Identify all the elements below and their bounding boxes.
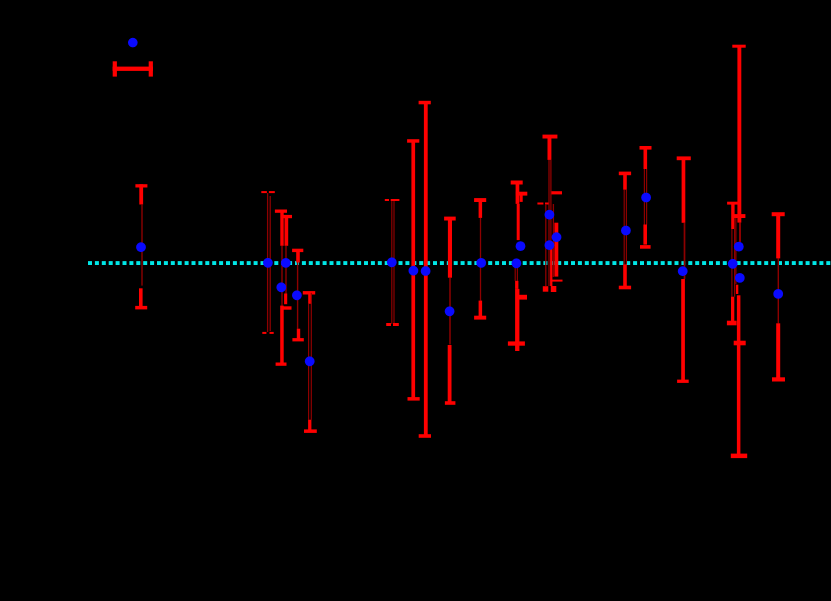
bar D2 thin line xyxy=(515,265,516,281)
bar C4 thin line xyxy=(449,278,451,345)
bar F1 tall thick stem xyxy=(737,46,741,222)
bar B1 bottom dashed cap xyxy=(262,332,273,334)
bar C4 top thick xyxy=(448,219,452,278)
point B5 xyxy=(305,356,315,366)
point B1 xyxy=(263,258,273,268)
bar F3 thin line xyxy=(734,218,735,297)
bar E1 bottom thick xyxy=(623,264,627,287)
bar F6 bottom cap xyxy=(731,454,747,459)
point C4 xyxy=(445,306,455,316)
bar D1 bottom cap xyxy=(474,316,486,320)
bar B2 top cap xyxy=(282,215,292,218)
point G xyxy=(773,289,783,299)
bar E1 top cap xyxy=(619,172,631,176)
bar B5 bottom cap xyxy=(304,429,317,433)
bar D1 bottom thick xyxy=(479,301,483,318)
legend marker dot xyxy=(128,38,138,48)
bar B2 bottom thick xyxy=(284,294,287,305)
point D3a xyxy=(545,210,555,220)
bar B5 top cap xyxy=(303,291,315,294)
legend errorbar sample xyxy=(113,61,154,76)
bar D3 thin line xyxy=(548,160,549,286)
bar D3 top cap xyxy=(543,135,558,139)
bar B2 bottom cap xyxy=(282,306,291,309)
bar D2 top cap xyxy=(511,181,523,185)
bar G thin line xyxy=(778,258,779,323)
bar B4 bottom thick xyxy=(297,329,300,340)
bar F1 top cap xyxy=(732,45,745,48)
bar G bottom thick xyxy=(776,323,780,379)
bar B3 thin line xyxy=(281,246,282,306)
bar D2 bottom thick xyxy=(515,289,519,351)
bar D2 lower stem xyxy=(515,281,518,289)
bar F2 bottom cap xyxy=(727,321,737,326)
point C1 xyxy=(387,257,397,267)
point F1 xyxy=(734,242,744,252)
bar B5 top thick xyxy=(308,293,312,304)
bar D4 thick stem xyxy=(554,223,558,277)
point B4 xyxy=(292,290,302,300)
bar G top cap xyxy=(772,212,785,216)
bar D2 right nub cap xyxy=(518,295,528,300)
bar C2 thick stem xyxy=(411,141,415,399)
bar F2 top cap xyxy=(727,202,738,205)
bar D3 medium seg xyxy=(550,246,552,286)
bar D2 second stem xyxy=(520,194,523,202)
bar D3 dashed cap xyxy=(537,203,548,205)
bar E1 thin line xyxy=(624,190,625,265)
bar D4 top cap xyxy=(552,191,563,194)
bar C4 top cap xyxy=(444,217,456,221)
bar B4 top cap xyxy=(292,249,303,252)
bar B3 top cap xyxy=(275,210,287,213)
bar F2 bottom thick xyxy=(731,297,734,324)
bar C1 bottom cap xyxy=(386,323,399,326)
bar B2 thin line xyxy=(285,246,286,294)
bar C4 bottom thick xyxy=(448,345,452,403)
bar E3 top thick xyxy=(682,158,686,223)
point E2 xyxy=(641,193,651,203)
point D2a xyxy=(516,241,526,251)
bar A top thick xyxy=(139,184,143,204)
bar E2 top thick xyxy=(644,148,648,169)
bar B5 thin line xyxy=(308,304,309,420)
point B3 xyxy=(276,282,286,292)
bar D1 top cap xyxy=(474,198,486,202)
bar E1 top thick xyxy=(623,173,627,189)
bar D2 top thick xyxy=(516,183,520,204)
bar D3 third thin line xyxy=(545,204,546,286)
bar C1 top dashed cap xyxy=(385,199,400,201)
point D3b xyxy=(545,240,555,250)
bar F1 bottom cap xyxy=(734,214,746,218)
bar E3 top cap xyxy=(677,156,691,160)
bar C1 thin line xyxy=(391,201,392,324)
bar E1 bottom cap xyxy=(619,286,631,290)
bar D3 blob cap 2 xyxy=(551,286,557,292)
bar E3 bottom cap xyxy=(677,380,689,383)
bar C1 second thin line xyxy=(393,201,394,324)
bar D2 second thin line xyxy=(517,265,518,281)
point D4 xyxy=(552,232,562,242)
bar C3 bottom cap xyxy=(419,434,431,438)
bar D1 top thick xyxy=(479,200,483,218)
bar C3 top cap xyxy=(419,101,431,105)
bar B1 second thin line xyxy=(270,196,271,331)
bar E2 top cap xyxy=(640,146,652,150)
bar F4 thin line xyxy=(735,218,736,284)
bar E3 thin line xyxy=(684,223,686,279)
bar D2 bottom cap xyxy=(508,341,525,345)
bar F6 mid cap xyxy=(734,341,746,346)
bar D1 thin line xyxy=(480,218,481,301)
point A xyxy=(136,242,146,252)
bar E3 bottom thick xyxy=(681,279,685,381)
bar A top cap xyxy=(135,184,147,187)
point F3 xyxy=(735,273,745,283)
bar D2 mid stem xyxy=(517,204,520,240)
bar G top thick xyxy=(776,214,780,258)
bar D3 second thin line xyxy=(550,160,551,245)
bar F5 medium line xyxy=(739,223,741,242)
point F2 xyxy=(728,259,738,269)
bar D3 blob cap 1 xyxy=(543,286,549,292)
bar E1 second thin line xyxy=(626,190,627,265)
bar B3 bottom thick xyxy=(280,306,284,364)
bar E2 bottom thick xyxy=(643,225,647,245)
bar G bottom cap xyxy=(772,377,785,381)
bar F2 thin line xyxy=(731,229,732,297)
bar B2 top thick xyxy=(285,217,289,246)
cyan dashed reference line xyxy=(88,261,831,265)
bar A bottom cap xyxy=(135,306,147,310)
bar F2 top thick xyxy=(731,203,734,229)
bar C4 bottom cap xyxy=(445,401,456,405)
point D2b xyxy=(512,258,522,268)
bar D3 fourth thin line xyxy=(553,204,554,277)
bar D2 second cap xyxy=(516,192,528,196)
bar B4 bottom cap xyxy=(292,338,303,341)
point B2 xyxy=(281,258,291,268)
bar E2 thin line xyxy=(644,169,645,225)
bar D3 top thick xyxy=(548,137,552,160)
bar F5 medium seg xyxy=(736,285,738,294)
bar A bottom thick xyxy=(139,288,143,307)
point C2 xyxy=(409,266,419,276)
point C3 xyxy=(421,266,431,276)
bar C2 bottom cap xyxy=(408,397,420,401)
bar B4 top thick xyxy=(296,250,300,262)
bar E2 second thin line xyxy=(646,169,647,225)
bar B1 thin line xyxy=(267,193,268,332)
bar B3 bottom cap xyxy=(276,363,287,366)
bar C3 thick stem xyxy=(424,103,428,437)
bar B3 top thick xyxy=(280,211,283,246)
point E1 xyxy=(621,226,631,236)
point D1 xyxy=(476,258,486,268)
bar C2 top cap xyxy=(407,139,419,143)
point E3 xyxy=(678,266,688,276)
bar E2 bottom cap xyxy=(640,245,651,249)
bar B5 second thin line xyxy=(311,293,312,420)
bar F6 long thick stem xyxy=(737,295,741,456)
bar B4 thin line xyxy=(297,263,298,329)
bar B1 top dashed cap xyxy=(261,191,275,193)
bar D4 bottom cap xyxy=(552,280,563,282)
bar A thin line xyxy=(141,204,142,286)
bar B5 bottom thick xyxy=(308,420,311,431)
